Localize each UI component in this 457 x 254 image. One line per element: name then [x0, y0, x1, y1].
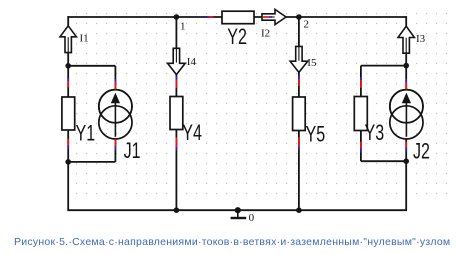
wire left vertical: [67, 16, 69, 97]
svg-text:Y4: Y4: [182, 122, 202, 146]
svg-text:2: 2: [304, 19, 310, 31]
wire Y4 bottom lead: [175, 130, 177, 211]
pin Y2 left: [205, 16, 209, 18]
current source J1: [99, 90, 132, 139]
svg-text:I5: I5: [307, 57, 317, 69]
wire Y3 top lead: [360, 66, 362, 97]
node 2 junction: [296, 14, 302, 20]
svg-text:Y5: Y5: [306, 123, 326, 147]
junction left upper: [65, 63, 71, 69]
ground node 0: [231, 207, 247, 218]
wire junction A to J1 horizontal: [68, 65, 115, 67]
wire J2 bottom lead: [405, 139, 407, 210]
current arrow I5: [290, 46, 308, 72]
pin J1 bottom: [114, 139, 116, 146]
wire J1 top lead: [114, 66, 116, 90]
pin Y3 bottom: [360, 142, 362, 149]
junction right upper: [403, 63, 409, 69]
pin J1 top: [114, 79, 116, 82]
current arrow I1: [60, 26, 76, 53]
admittance Y5: [293, 97, 306, 131]
wire right vertical: [405, 16, 407, 90]
pin Y1 top: [67, 78, 69, 81]
svg-text:Y3: Y3: [365, 122, 385, 146]
pin Y4 bottom: [175, 137, 177, 147]
svg-text:I3: I3: [416, 33, 426, 45]
svg-text:Y2: Y2: [227, 26, 247, 50]
node 1 junction: [174, 14, 180, 20]
wire bottom-left horizontal: [68, 161, 115, 163]
current arrow I2: [262, 9, 286, 24]
junction right lower: [403, 158, 409, 164]
caption: [14, 236, 450, 248]
svg-text:0: 0: [249, 212, 255, 224]
wire bottom bus: [67, 209, 407, 211]
svg-text:I4: I4: [187, 56, 197, 68]
wire Y1 bottom lead: [67, 130, 69, 210]
svg-text:J1: J1: [124, 140, 141, 164]
junction left lower: [65, 159, 71, 165]
wire junction B to Y3 horizontal: [361, 65, 406, 67]
junction Y5 bottom: [296, 207, 302, 213]
admittance Y2: [222, 11, 254, 24]
pin Y1 bottom: [67, 139, 69, 146]
wire Y3 bottom lead: [360, 131, 362, 162]
pin Y3 top: [360, 77, 362, 80]
wire node2 vertical: [298, 17, 300, 97]
wire bottom-right horizontal: [361, 160, 406, 162]
pin marks (red/blue): [68, 17, 406, 153]
pin Y4 top: [175, 76, 177, 80]
admittance Y4: [170, 97, 183, 130]
pin Y5 bottom: [298, 137, 300, 147]
pin J2 bottom: [405, 142, 407, 148]
current source J2: [390, 90, 423, 139]
admittance Y1: [62, 97, 75, 130]
svg-text:I2: I2: [261, 27, 270, 39]
svg-text:J2: J2: [413, 140, 430, 164]
wire top bus: [67, 16, 406, 18]
junction Y4 bottom: [174, 207, 180, 213]
current arrow I4: [168, 48, 186, 74]
pin Y5 top: [298, 76, 300, 80]
svg-text:1: 1: [180, 20, 186, 32]
admittance Y3: [354, 97, 367, 131]
current arrow I3: [398, 26, 414, 53]
pin J2 top: [405, 79, 407, 82]
svg-text:Y1: Y1: [76, 122, 96, 146]
wire Y5 bottom lead: [298, 131, 300, 211]
wire J1 bottom lead: [114, 139, 116, 162]
svg-text:I1: I1: [80, 32, 89, 44]
wire node1 vertical: [175, 17, 177, 97]
